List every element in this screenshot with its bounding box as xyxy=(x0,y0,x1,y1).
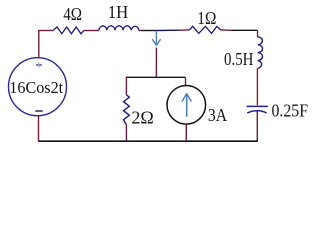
svg-text:3A: 3A xyxy=(208,105,228,125)
capacitor C top plate xyxy=(247,105,268,107)
wire bottom horizontal xyxy=(38,140,258,142)
wire top-right corner down maroon xyxy=(257,30,259,37)
wire after 1ohm maroon xyxy=(221,29,233,31)
svg-text:1Ω: 1Ω xyxy=(197,8,216,28)
svg-text:16Cos2t: 16Cos2t xyxy=(9,78,63,97)
wire between 4ohm and 1H xyxy=(84,30,99,32)
wire 0.5H to capacitor xyxy=(256,68,258,105)
wire left vertical top xyxy=(38,30,40,58)
capacitor C bottom curved plate xyxy=(247,111,267,113)
wire bar down to current source xyxy=(185,77,187,86)
svg-text:1H: 1H xyxy=(108,2,129,22)
wire capacitor to bottom-right corner xyxy=(256,111,258,141)
wire top-left horizontal xyxy=(39,30,53,32)
svg-text:4Ω: 4Ω xyxy=(63,4,82,25)
wire node down to bar xyxy=(155,48,157,78)
wire left vertical bottom xyxy=(38,116,40,142)
wire node segment black xyxy=(142,30,157,32)
voltage source V 16Cos2t circle xyxy=(9,58,67,116)
svg-text:0.5H: 0.5H xyxy=(224,48,254,69)
wire node to 1ohm dark xyxy=(157,29,181,31)
inductor L 0.5H vertical xyxy=(257,37,262,69)
wire bar down to 2ohm xyxy=(125,77,127,95)
plus sign xyxy=(36,64,42,66)
wire 2ohm to bottom xyxy=(125,125,127,142)
minus sign xyxy=(35,110,42,112)
resistor R 2ohm vertical xyxy=(124,95,130,125)
current source I 3A circle xyxy=(167,86,206,125)
wire middle bar black xyxy=(126,76,185,78)
svg-text:2Ω: 2Ω xyxy=(131,107,153,127)
wire 1H to node xyxy=(139,30,142,32)
current arrow down at node xyxy=(152,31,160,46)
wire current source to bottom xyxy=(185,124,187,141)
resistor R 4ohm xyxy=(53,27,84,34)
wire maroon before 1ohm xyxy=(180,29,190,31)
current source arrow up xyxy=(182,94,191,117)
wire to top-right corner black xyxy=(233,29,258,31)
svg-text:0.25F: 0.25F xyxy=(272,100,308,120)
inductor L 1H xyxy=(99,26,139,31)
resistor R 1ohm xyxy=(190,26,221,33)
